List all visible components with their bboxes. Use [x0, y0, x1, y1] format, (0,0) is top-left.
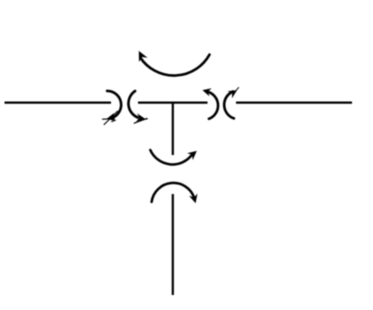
field-loop arrow right-outer (left-opening crescent, arrowhead top-right): [224, 87, 239, 118]
field-loop arrow left-inner (left-opening crescent, arrowhead bottom-right, sketchy): [128, 91, 147, 123]
field-loop arrow right-inner (right-opening crescent, arrowhead top-left): [202, 88, 218, 119]
field-loop arrow left-outer (right-opening crescent, arrowhead bottom-left, sketchy): [102, 91, 121, 125]
wire vertical upper (T stem top): [172, 102, 174, 155]
rotation arrow lower (arc over lower stem, arrowhead down-right): [152, 183, 198, 203]
wire right horizontal: [236, 101, 352, 103]
wire left horizontal: [5, 101, 112, 103]
wire vertical lower (T stem bottom): [172, 194, 174, 295]
rotation arrow top (large arc above T crossbar, arrowhead up-left): [139, 51, 210, 76]
rotation arrow middle (arc under crossbar around upper stem, arrowhead up-right): [150, 150, 197, 164]
wire middle horizontal (T crossbar): [138, 101, 208, 103]
